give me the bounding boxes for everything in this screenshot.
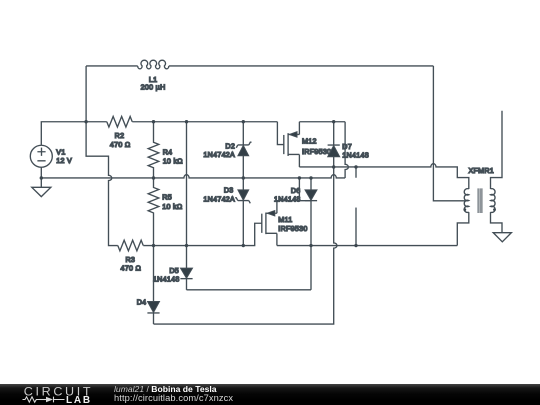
wire M11 drain to D6 cathode [277,200,311,202]
footer bar [0,384,540,405]
wire D5 anode return to bottom rail junction [187,289,312,291]
inductor L1 [138,60,169,69]
wire top rail left segment [86,121,107,123]
wire +12V vertical (L1 left leg down through top rail to jog) [86,66,118,246]
svg-text:D4: D4 [137,299,147,307]
wire top rail from +12V node to L1 left [86,65,138,67]
zener diode D3 [235,178,250,246]
resistor R5 [148,178,159,246]
svg-text:1N4742A: 1N4742A [203,195,235,203]
wire L1 rail down to transformer center tap [433,66,467,201]
wire V1 plus to top rail [41,122,86,146]
wire M12 drain rail [299,121,345,123]
svg-text:D3: D3 [224,186,234,194]
svg-text:1N4742A: 1N4742A [203,151,235,159]
svg-text:XFMR1: XFMR1 [469,167,495,175]
diode D5 [180,246,192,290]
svg-text:12 V: 12 V [56,157,72,165]
transformer phase dot primary [463,208,466,211]
wire V1 minus down to ground junction [40,167,42,178]
svg-text:D2: D2 [225,143,235,151]
svg-text:1N4148: 1N4148 [153,276,180,284]
wire top-to-bottom rail vertical at x186 [186,122,188,246]
svg-text:M12: M12 [302,137,317,145]
diode D4 [147,246,159,324]
svg-text:IRF9530: IRF9530 [278,225,307,233]
junction dots wire A [332,165,358,168]
transformer core [478,188,482,213]
svg-text:LAB: LAB [66,395,92,405]
diode D7 [328,122,340,167]
svg-text:470 Ω: 470 Ω [120,265,141,273]
svg-text:IRF9530: IRF9530 [302,148,331,156]
zener diode D2 [236,122,251,178]
ground (V1) [32,178,51,197]
junction dots middle rail [40,176,313,179]
svg-text:1N4148: 1N4148 [342,151,369,159]
wire D4 cathode return to wire A junction [154,167,338,324]
wire stub above bottom rail [355,208,357,246]
diode D6 [305,178,317,201]
transformer XFMR1 primary winding [464,189,469,213]
wire bottom rail M11 source to transformer with hop [277,245,457,247]
wire middle rail (V1- to M12 gate-drive riser) with hops [41,175,345,178]
wire D6 cathode down through bottom rail to D5 return [310,201,312,290]
wire transformer primary bottom lead [457,212,469,245]
wire bottom-left rail R3 to M11 gate [143,223,261,245]
svg-text:D5: D5 [169,267,179,275]
ground (secondary) [493,233,511,242]
MOSFET M11 [262,201,277,246]
MOSFET M12 [277,122,299,167]
transformer XFMR1 secondary winding [491,189,496,213]
wire stub below wire A [355,167,357,178]
svg-text:D6: D6 [291,187,301,195]
svg-text:R5: R5 [162,194,172,202]
wire mid-rail to M11 drain wire (x299) [298,178,300,201]
transformer phase dot secondary [493,208,496,211]
svg-text:470 Ω: 470 Ω [110,141,131,149]
wire top rail R2 right to M12 gate corner [132,121,277,123]
svg-text:10 kΩ: 10 kΩ [162,203,182,211]
wire L1 to right corner [169,65,434,67]
wire secondary top output (dangling) [491,111,503,189]
svg-text:R3: R3 [125,256,135,264]
wire secondary bottom to ground [491,212,503,232]
resistor R2 [107,116,132,127]
svg-text:D7: D7 [342,143,352,151]
voltage source V1 [30,145,52,167]
svg-text:V1: V1 [56,149,65,157]
junction dots top rail [84,120,335,123]
svg-text:1N4148: 1N4148 [274,196,301,204]
resistor R3 [118,240,143,251]
svg-text:R4: R4 [163,148,173,156]
svg-text:200 µH: 200 µH [141,84,166,92]
svg-text:M11: M11 [278,216,292,224]
wire riser from middle rail up to M12 drain rail [345,122,348,178]
svg-text:10 kΩ: 10 kΩ [163,158,183,166]
resistor R4 [148,122,159,178]
svg-text:R2: R2 [115,132,125,140]
junction dots bottom rail [152,244,358,247]
wire A: M12 source to transformer primary top with hops [299,164,468,189]
